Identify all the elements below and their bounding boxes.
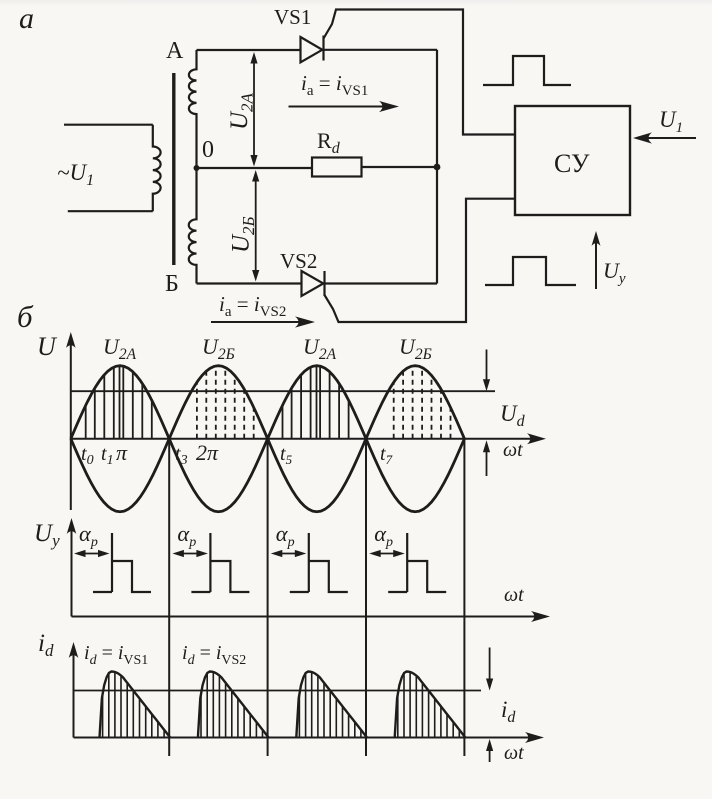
svg-text:Rd: Rd bbox=[317, 128, 341, 157]
svg-text:a: a bbox=[19, 2, 34, 35]
plot1 U axis bbox=[70, 341, 72, 510]
wire 0 to Rd bbox=[197, 167, 313, 169]
secondary winding bbox=[189, 50, 197, 284]
current pulse hatching 4 bbox=[398, 672, 460, 738]
dimension arrow U2A bbox=[253, 58, 255, 160]
wire VS1 cathode to bus bbox=[324, 49, 438, 51]
control pulse group 2 bbox=[191, 533, 249, 592]
thyristor VS1 bbox=[301, 36, 324, 63]
svg-text:~U1: ~U1 bbox=[57, 160, 94, 189]
thyristor VS2 bbox=[302, 271, 325, 296]
alpha_p arrow group 2 bbox=[178, 553, 201, 555]
gate pulse symbol upper bbox=[483, 56, 571, 85]
transformer core bbox=[172, 73, 175, 265]
svg-text:ωt: ωt bbox=[504, 742, 524, 764]
id average level line bbox=[74, 690, 482, 692]
svg-text:id = iVS2: id = iVS2 bbox=[182, 642, 246, 668]
alpha_p arrow group 4 bbox=[375, 553, 398, 555]
svg-text:ia = iVS2: ia = iVS2 bbox=[219, 292, 286, 320]
svg-text:αp: αp bbox=[177, 521, 196, 550]
svg-text:0: 0 bbox=[202, 137, 214, 163]
current pulse hatching 1 bbox=[103, 672, 165, 738]
plot1 wt axis bbox=[71, 438, 536, 440]
svg-text:ia = iVS1: ia = iVS1 bbox=[301, 71, 368, 99]
svg-text:αp: αp bbox=[276, 521, 295, 550]
svg-text:t0t1π: t0t1π bbox=[81, 440, 128, 468]
control unit CU box bbox=[515, 106, 630, 215]
svg-text:id: id bbox=[38, 630, 54, 660]
plot3 wt axis bbox=[74, 737, 535, 739]
svg-text:СУ: СУ bbox=[554, 149, 590, 178]
arrow ia VS1 bbox=[289, 106, 384, 108]
Ud dimension arrows bbox=[486, 350, 488, 382]
wire A to VS1 bbox=[197, 49, 302, 51]
svg-text:VS1: VS1 bbox=[274, 5, 311, 29]
svg-text:αp: αp bbox=[374, 521, 393, 550]
svg-text:Ud: Ud bbox=[500, 401, 526, 430]
control pulse group 4 bbox=[388, 533, 446, 592]
svg-text:id: id bbox=[501, 697, 516, 726]
alpha_p arrow group 1 bbox=[80, 553, 103, 555]
arrow U1 into CU bbox=[642, 137, 696, 139]
id dimension arrows bbox=[489, 648, 491, 681]
svg-text:αp: αp bbox=[79, 521, 98, 550]
VS2 gate wire to CU bbox=[325, 199, 516, 322]
hatching arch1 (solid) bbox=[86, 366, 152, 439]
svg-text:U1: U1 bbox=[659, 107, 683, 136]
resistor Rd bbox=[312, 158, 362, 177]
plot2 wt axis bbox=[72, 616, 545, 618]
dimension arrow U2B bbox=[255, 176, 257, 275]
Ud level line bbox=[71, 390, 495, 392]
source ~U1 terminals bbox=[64, 125, 153, 212]
current pulse 2 bbox=[198, 672, 269, 738]
current pulse hatching 2 bbox=[201, 672, 263, 738]
svg-text:U2А: U2А bbox=[226, 92, 257, 130]
primary winding bbox=[153, 125, 161, 212]
wire B to VS2 bbox=[197, 282, 303, 284]
svg-text:U2Б: U2Б bbox=[202, 334, 235, 363]
alpha_p arrow group 3 bbox=[277, 553, 300, 555]
svg-text:Uy: Uy bbox=[603, 258, 626, 287]
gate pulse symbol lower bbox=[485, 257, 576, 285]
control pulse group 1 bbox=[93, 533, 151, 592]
svg-text:Uy: Uy bbox=[34, 520, 60, 550]
current pulse 3 bbox=[296, 672, 367, 738]
svg-text:VS2: VS2 bbox=[280, 249, 317, 273]
svg-text:U2Б: U2Б bbox=[228, 216, 259, 253]
hatching arch3 (solid) bbox=[283, 366, 349, 439]
svg-text:t7: t7 bbox=[380, 443, 393, 467]
svg-text:U2А: U2А bbox=[103, 334, 137, 363]
current pulse hatching 3 bbox=[299, 672, 361, 738]
junction dot bbox=[434, 164, 441, 171]
vertical grid lines bbox=[169, 439, 464, 756]
svg-text:А: А bbox=[166, 38, 184, 64]
VS1 gate wire to CU bbox=[324, 10, 516, 135]
arrow Uy into CU bbox=[595, 240, 597, 289]
svg-text:id = iVS1: id = iVS1 bbox=[84, 642, 148, 668]
arrow ia VS2 bbox=[211, 321, 299, 323]
svg-text:U2А: U2А bbox=[303, 334, 337, 363]
plot2 Uy axis bbox=[71, 527, 73, 617]
svg-text:ωt: ωt bbox=[504, 584, 524, 606]
control pulse group 3 bbox=[290, 533, 348, 592]
cathode bus wire bbox=[436, 50, 438, 284]
svg-text:t5: t5 bbox=[280, 443, 293, 467]
hatching arch4 (dashed) bbox=[394, 366, 451, 439]
svg-text:ωt: ωt bbox=[503, 439, 523, 461]
current pulse 1 bbox=[100, 672, 171, 738]
plot3 id axis bbox=[73, 651, 75, 738]
wire Rd to bus junction bbox=[362, 166, 438, 168]
wire VS2 cathode to bus bbox=[325, 282, 438, 284]
svg-text:t32π: t32π bbox=[175, 440, 219, 468]
svg-text:U: U bbox=[37, 332, 58, 361]
current pulse 4 bbox=[395, 672, 466, 738]
sine curve phase A bbox=[71, 366, 465, 512]
center tap junction bbox=[194, 165, 200, 171]
hatching arch2 (dashed) bbox=[197, 366, 254, 439]
svg-text:Б: Б bbox=[165, 271, 179, 297]
sine curve phase B bbox=[71, 366, 465, 512]
svg-text:б: б bbox=[17, 299, 34, 334]
svg-text:U2Б: U2Б bbox=[399, 334, 432, 363]
